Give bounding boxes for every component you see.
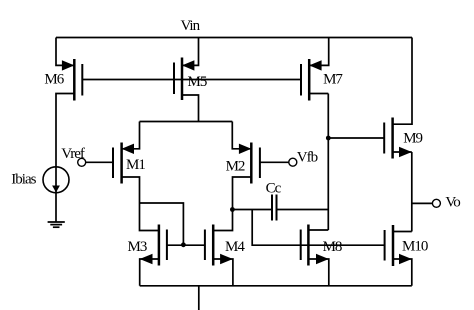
wire Vin supply rail — [56, 37, 412, 39]
wire M7 drain down to M8 drain — [327, 94, 329, 231]
svg-text:M3: M3 — [128, 239, 147, 255]
transistor M2 — [232, 122, 288, 210]
svg-text:M10: M10 — [402, 239, 428, 255]
wire M9 gate — [328, 137, 384, 139]
transistor M8 — [301, 225, 329, 286]
svg-text:M8: M8 — [323, 239, 342, 255]
capacitor Cc — [272, 195, 277, 221]
wire branch M1 drain to M3/M4 gate node — [140, 203, 184, 245]
wire node A to M4 drain — [213, 210, 232, 231]
node M3/M4 gate junction dot — [181, 242, 186, 247]
terminal Vref — [78, 158, 86, 166]
wire bottom ground rail — [140, 285, 412, 287]
svg-text:M7: M7 — [323, 72, 343, 88]
wire M1 drain down to M3 drain — [140, 203, 159, 231]
wire node A branch down to second stage gates — [252, 210, 384, 246]
current source Ibias — [43, 167, 69, 222]
svg-text:M9: M9 — [403, 131, 422, 147]
wire tail rail (M1/M2 sources to M5 drain) — [140, 121, 233, 123]
svg-text:Vref: Vref — [61, 146, 85, 162]
transistor M5 — [174, 38, 199, 122]
transistor M1 — [86, 122, 140, 204]
svg-text:Cc: Cc — [266, 181, 282, 197]
svg-text:Ibias: Ibias — [11, 172, 36, 188]
wire M9 source to M10 drain — [411, 152, 413, 232]
transistor M6 — [56, 38, 82, 167]
svg-text:Vin: Vin — [181, 18, 201, 34]
wire Cc to M7 drain vertical — [277, 209, 329, 211]
svg-text:M5: M5 — [188, 74, 207, 90]
ground — [48, 222, 65, 227]
terminal Vo — [432, 199, 440, 207]
svg-text:M6: M6 — [44, 72, 64, 88]
node A junction dot (M2 drain / M4 drain / Cc) — [230, 207, 235, 212]
transistor M10 — [385, 225, 412, 286]
node M7 drain / M9 gate junction — [326, 136, 331, 141]
transistor M3 — [140, 225, 205, 286]
transistor M7 — [301, 38, 329, 101]
wire rail stub to bottom edge — [198, 286, 200, 310]
transistor M4 — [205, 225, 233, 286]
svg-text:M2: M2 — [226, 159, 245, 175]
svg-text:M1: M1 — [126, 157, 145, 173]
transistor M9 — [384, 38, 412, 159]
terminal Vfb — [289, 158, 297, 166]
svg-text:M4: M4 — [225, 239, 245, 255]
wire Vo tap — [412, 202, 433, 204]
svg-text:Vfb: Vfb — [297, 149, 318, 165]
wire PMOS mirror gate rail (M6-M5-M7 gates) — [82, 79, 301, 81]
wire node A to Cc — [232, 209, 272, 211]
svg-text:Vo: Vo — [445, 195, 460, 211]
